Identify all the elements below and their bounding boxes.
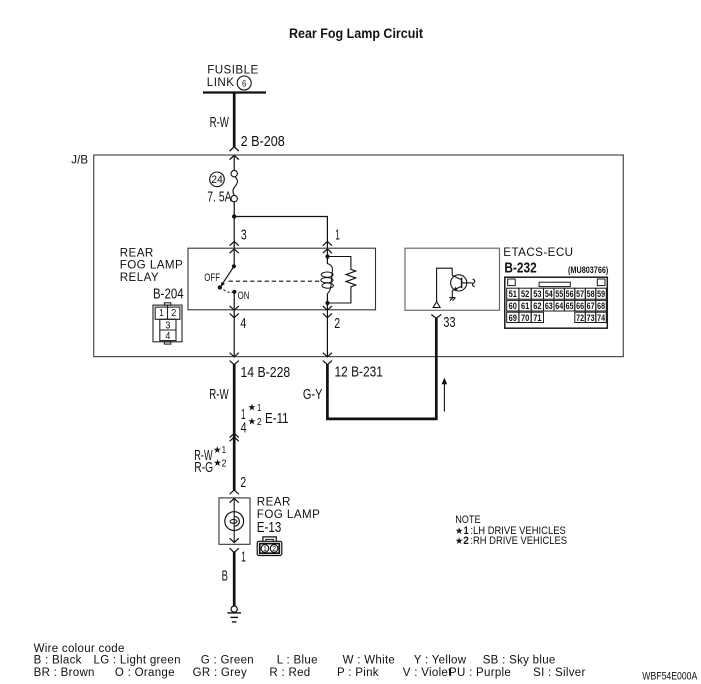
svg-text:G : Green: G : Green bbox=[201, 655, 254, 667]
relay coil bbox=[321, 264, 334, 294]
svg-text:R-W: R-W bbox=[209, 387, 229, 403]
svg-text:64: 64 bbox=[555, 301, 563, 311]
svg-text:REAR: REAR bbox=[120, 247, 154, 260]
rear fog lamp relay box bbox=[188, 248, 376, 310]
wire thin from B-208 to fuse bbox=[233, 155, 235, 170]
relay switch arm lower node bbox=[218, 285, 222, 289]
svg-text:3: 3 bbox=[165, 321, 171, 332]
svg-text:60: 60 bbox=[509, 301, 517, 311]
wire labels R-W star1 / R-G star2 bbox=[194, 445, 227, 476]
ECU pin 33 female terminal bbox=[431, 315, 441, 319]
J/B junction block box bbox=[94, 155, 624, 357]
relay coil column wire bbox=[326, 249, 328, 264]
lamp pin 2 chevrons at lamp box top bbox=[230, 490, 239, 503]
relay switch arm arrowhead bbox=[221, 282, 225, 287]
wire R-W thick from B-228 to rear fog lamp bbox=[233, 364, 236, 490]
wire B thick from lamp to ground bbox=[233, 553, 236, 606]
svg-text:Wire colour code: Wire colour code bbox=[34, 643, 125, 655]
svg-text:56: 56 bbox=[566, 289, 574, 299]
wire colour code legend bbox=[34, 643, 586, 679]
svg-text:SI : Silver: SI : Silver bbox=[533, 667, 586, 679]
svg-text:2: 2 bbox=[240, 475, 246, 491]
relay resistor branch bbox=[328, 257, 356, 304]
svg-text:SB : Sky blue: SB : Sky blue bbox=[483, 655, 556, 667]
svg-text:★: ★ bbox=[213, 445, 222, 456]
svg-text:72: 72 bbox=[576, 313, 584, 323]
svg-text:71: 71 bbox=[533, 313, 541, 323]
rear fog lamp box bbox=[219, 498, 250, 544]
pin 4 wire chevrons at J/B bottom bbox=[230, 353, 239, 365]
svg-text:LINK: LINK bbox=[207, 76, 235, 89]
svg-text:B : Black: B : Black bbox=[34, 655, 82, 667]
svg-text:12 B-231: 12 B-231 bbox=[335, 365, 383, 381]
svg-text:R-G: R-G bbox=[194, 460, 213, 476]
connector E-11 chevrons bbox=[230, 433, 239, 441]
svg-text:70: 70 bbox=[521, 313, 529, 323]
NOTE block bbox=[455, 514, 567, 547]
svg-text:4: 4 bbox=[165, 331, 171, 342]
svg-text:67: 67 bbox=[587, 301, 595, 311]
svg-text:62: 62 bbox=[533, 301, 541, 311]
connector B-204 pin diagram bbox=[153, 303, 182, 344]
fuse terminals and element bbox=[231, 170, 237, 201]
svg-text:3: 3 bbox=[241, 228, 247, 244]
svg-text:59: 59 bbox=[597, 289, 605, 299]
pin 2 wire chevrons at J/B bottom bbox=[323, 353, 332, 365]
pin 3 chevrons at relay box top bbox=[230, 241, 239, 253]
coil top junction node bbox=[325, 254, 329, 258]
rear fog lamp label bbox=[257, 496, 321, 521]
relay switch arm (OFF position) bbox=[223, 266, 234, 283]
dashed travel arc to ON contact bbox=[224, 290, 233, 293]
wire inside lamp box bbox=[233, 498, 235, 542]
wire branch to relay coil column bbox=[234, 217, 327, 249]
svg-text:1: 1 bbox=[222, 445, 226, 456]
svg-text:G-Y: G-Y bbox=[303, 387, 323, 403]
coil bottom junction node bbox=[325, 301, 329, 305]
svg-text:68: 68 bbox=[597, 301, 605, 311]
fusible link bus bar bbox=[203, 91, 266, 93]
svg-text:4: 4 bbox=[240, 316, 246, 332]
junction node below fuse bbox=[232, 214, 236, 218]
wire R-W thick from fusible link to J/B bbox=[233, 93, 236, 148]
svg-text:53: 53 bbox=[533, 289, 541, 299]
connector E-13 pin diagram bbox=[257, 537, 282, 556]
svg-text:2 B-208: 2 B-208 bbox=[241, 134, 285, 150]
svg-text:73: 73 bbox=[587, 313, 595, 323]
svg-text:1: 1 bbox=[257, 403, 261, 414]
svg-text:2: 2 bbox=[171, 308, 176, 319]
svg-text:1: 1 bbox=[263, 546, 267, 553]
wire coil bottom bbox=[326, 294, 328, 358]
fusible link number 6 circle bbox=[237, 76, 251, 90]
B-232 pin cells row 69-74 bbox=[507, 312, 607, 322]
svg-text:57: 57 bbox=[576, 289, 584, 299]
svg-text:LG : Light green: LG : Light green bbox=[94, 655, 181, 667]
wire from ON contact to relay pin 4 bbox=[233, 292, 235, 357]
signal direction arrow bbox=[443, 383, 445, 412]
transistor emitter arrow bbox=[453, 287, 457, 291]
svg-text:★: ★ bbox=[455, 535, 463, 546]
svg-text:PU : Purple: PU : Purple bbox=[449, 667, 511, 679]
connector B-232 pin grid bbox=[505, 277, 608, 328]
ETACS-ECU internal circuit box bbox=[405, 248, 500, 310]
wire from junction down to relay pin 3 bbox=[233, 217, 235, 267]
svg-text:B-204: B-204 bbox=[153, 287, 184, 303]
svg-text:1: 1 bbox=[241, 550, 246, 566]
svg-text:L : Blue: L : Blue bbox=[277, 655, 318, 667]
svg-text:RELAY: RELAY bbox=[120, 271, 159, 284]
B-232 pin cells row 60-68 bbox=[507, 300, 607, 311]
transistor internal ground bbox=[449, 298, 455, 301]
svg-text:2: 2 bbox=[221, 459, 226, 470]
svg-text:52: 52 bbox=[521, 289, 529, 299]
svg-text:2: 2 bbox=[257, 417, 262, 428]
svg-text:Y : Yellow: Y : Yellow bbox=[414, 655, 467, 667]
svg-text:OFF: OFF bbox=[204, 272, 220, 284]
svg-text:Rear Fog Lamp Circuit: Rear Fog Lamp Circuit bbox=[289, 26, 423, 42]
svg-text:R-W: R-W bbox=[210, 115, 229, 131]
svg-text:★: ★ bbox=[248, 416, 257, 427]
svg-text:ON: ON bbox=[238, 290, 250, 302]
dashed link from switch to coil bbox=[229, 280, 322, 282]
svg-text:69: 69 bbox=[509, 313, 517, 323]
svg-text:24: 24 bbox=[211, 174, 223, 186]
svg-text:★: ★ bbox=[248, 402, 257, 413]
svg-text:61: 61 bbox=[521, 301, 529, 311]
svg-text:E-13: E-13 bbox=[257, 520, 282, 536]
svg-text:2: 2 bbox=[463, 535, 469, 547]
svg-text:(MU803766): (MU803766) bbox=[568, 265, 608, 275]
svg-text:O : Orange: O : Orange bbox=[115, 667, 175, 679]
svg-text:63: 63 bbox=[545, 301, 553, 311]
B-232 pin numbers bbox=[509, 289, 605, 323]
svg-text:6: 6 bbox=[242, 78, 246, 88]
svg-text:55: 55 bbox=[555, 289, 563, 299]
svg-text:4: 4 bbox=[241, 421, 247, 437]
ground symbol bbox=[227, 606, 241, 622]
B-232 pin cells row 51-59 bbox=[507, 288, 607, 299]
svg-text:WBF54E000A: WBF54E000A bbox=[642, 670, 698, 682]
ON contact node bbox=[232, 290, 236, 294]
svg-text:J/B: J/B bbox=[71, 153, 88, 166]
lamp pin 1 chevrons at lamp box bottom bbox=[230, 538, 239, 552]
svg-text:51: 51 bbox=[509, 289, 517, 299]
svg-text:E-11: E-11 bbox=[265, 411, 289, 427]
svg-text:2: 2 bbox=[272, 546, 276, 553]
pin 2 chevrons at relay box bottom bbox=[323, 306, 332, 318]
svg-text:FUSIBLE: FUSIBLE bbox=[207, 64, 258, 77]
svg-text:BR : Brown: BR : Brown bbox=[34, 667, 95, 679]
fusible link label bbox=[207, 64, 259, 90]
svg-text:B-232: B-232 bbox=[504, 260, 536, 277]
svg-text:B: B bbox=[222, 569, 228, 585]
wire G-Y thick from pin 33 down and left to B-231 bbox=[327, 318, 436, 419]
svg-text:74: 74 bbox=[597, 313, 605, 323]
pin 4 chevrons at relay box bottom bbox=[230, 306, 239, 318]
rear fog lamp relay label bbox=[120, 247, 184, 285]
rear fog lamp bulb bbox=[225, 512, 244, 531]
svg-text::RH DRIVE VEHICLES: :RH DRIVE VEHICLES bbox=[470, 535, 567, 547]
svg-text:14 B-228: 14 B-228 bbox=[241, 365, 291, 381]
pin 1 chevrons at relay box top bbox=[323, 241, 332, 253]
svg-text:V : Violet: V : Violet bbox=[403, 667, 452, 679]
svg-text:7. 5A: 7. 5A bbox=[207, 190, 231, 206]
svg-text:2: 2 bbox=[334, 316, 340, 332]
relay switch upper contact node bbox=[232, 264, 236, 268]
svg-text:33: 33 bbox=[443, 315, 455, 331]
svg-text:ETACS-ECU: ETACS-ECU bbox=[503, 246, 573, 259]
svg-text:P : Pink: P : Pink bbox=[337, 667, 379, 679]
svg-text:R : Red: R : Red bbox=[269, 667, 310, 679]
svg-text:54: 54 bbox=[545, 289, 553, 299]
svg-text:58: 58 bbox=[587, 289, 595, 299]
fuse number 24 circled bbox=[210, 172, 225, 187]
connector B-208 chevrons at J/B boundary bbox=[230, 147, 239, 160]
svg-text:65: 65 bbox=[566, 301, 574, 311]
ECU output triangle node bbox=[433, 302, 440, 308]
svg-text:FOG LAMP: FOG LAMP bbox=[120, 259, 184, 272]
svg-text:REAR: REAR bbox=[257, 496, 291, 509]
connector E-11 pin labels 1/4 with notes bbox=[241, 402, 289, 436]
svg-text:1: 1 bbox=[159, 308, 164, 319]
svg-text:66: 66 bbox=[576, 301, 584, 311]
svg-text:W : White: W : White bbox=[343, 655, 396, 667]
transistor Q1 inside ECU bbox=[437, 268, 475, 307]
wire from fuse to junction node bbox=[233, 202, 235, 217]
svg-text:1: 1 bbox=[335, 228, 340, 244]
svg-text:GR : Grey: GR : Grey bbox=[193, 667, 247, 679]
